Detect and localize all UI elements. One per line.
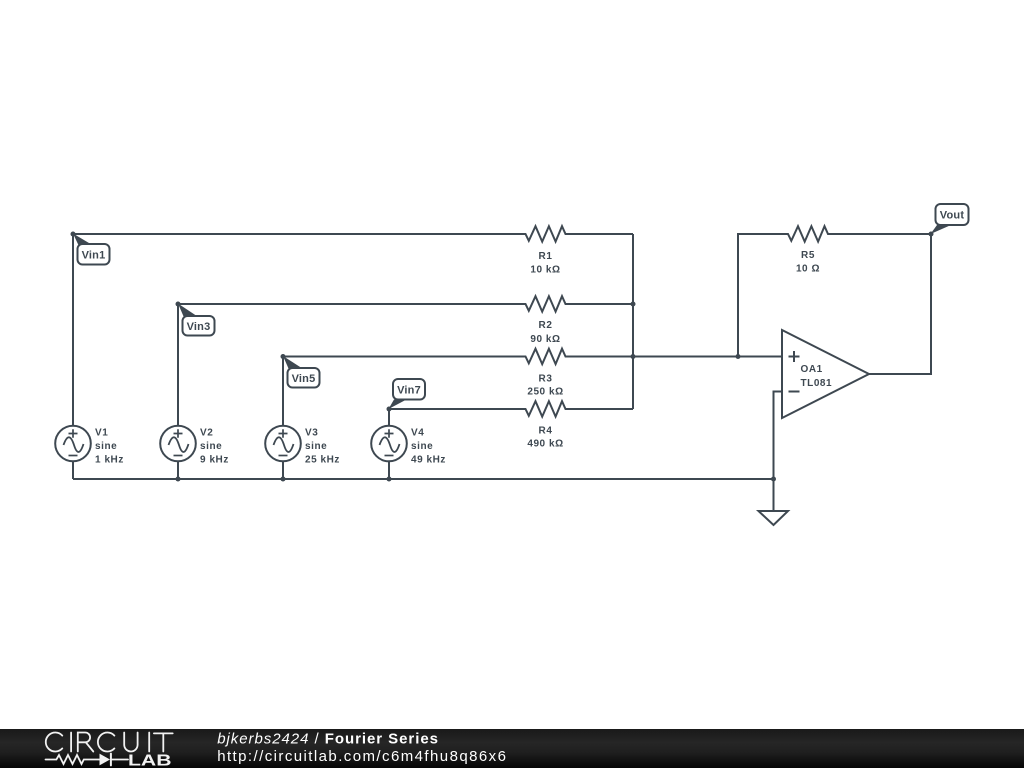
svg-text:9 kHz: 9 kHz bbox=[200, 455, 229, 466]
svg-text:sine: sine bbox=[305, 441, 327, 452]
svg-text:http://circuitlab.com/c6m4fhu8: http://circuitlab.com/c6m4fhu8q86x6 bbox=[217, 748, 507, 765]
svg-text:R3: R3 bbox=[539, 373, 553, 384]
svg-text:90 kΩ: 90 kΩ bbox=[530, 334, 560, 345]
svg-text:V3: V3 bbox=[305, 427, 318, 438]
svg-text:V4: V4 bbox=[411, 427, 424, 438]
svg-text:25 kHz: 25 kHz bbox=[305, 455, 340, 466]
svg-text:sine: sine bbox=[200, 441, 222, 452]
svg-text:250 kΩ: 250 kΩ bbox=[527, 386, 563, 397]
svg-text:Vin3: Vin3 bbox=[187, 321, 211, 333]
svg-text:49 kHz: 49 kHz bbox=[411, 455, 446, 466]
svg-text:sine: sine bbox=[411, 441, 433, 452]
svg-text:10 Ω: 10 Ω bbox=[796, 264, 820, 275]
svg-text:Vin5: Vin5 bbox=[292, 373, 316, 385]
svg-text:1 kHz: 1 kHz bbox=[95, 455, 124, 466]
svg-text:R4: R4 bbox=[539, 425, 553, 436]
svg-text:Vin1: Vin1 bbox=[82, 249, 106, 261]
svg-text:LAB: LAB bbox=[128, 753, 172, 768]
svg-text:10 kΩ: 10 kΩ bbox=[530, 264, 560, 275]
svg-text:V2: V2 bbox=[200, 427, 213, 438]
svg-text:Vin7: Vin7 bbox=[397, 384, 421, 396]
svg-text:V1: V1 bbox=[95, 427, 108, 438]
svg-text:TL081: TL081 bbox=[801, 378, 833, 389]
svg-text:R1: R1 bbox=[539, 251, 553, 262]
svg-text:R2: R2 bbox=[539, 320, 553, 331]
svg-text:bjkerbs2424 / Fourier Series: bjkerbs2424 / Fourier Series bbox=[217, 731, 439, 748]
svg-text:OA1: OA1 bbox=[801, 364, 823, 375]
svg-text:R5: R5 bbox=[801, 250, 815, 261]
svg-text:490 kΩ: 490 kΩ bbox=[527, 438, 563, 449]
svg-text:sine: sine bbox=[95, 441, 117, 452]
svg-text:Vout: Vout bbox=[940, 210, 965, 222]
